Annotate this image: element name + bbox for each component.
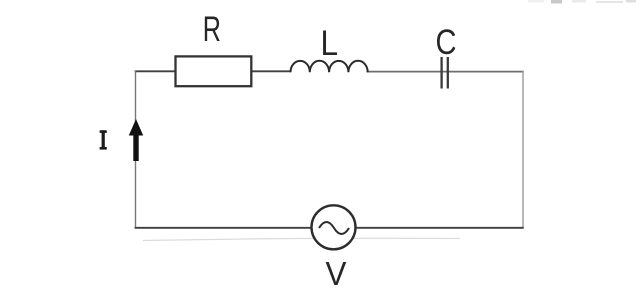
- scan artifact top-right smudges: [528, 0, 636, 4]
- wire resistor to inductor: [251, 70, 291, 72]
- label V: [326, 255, 347, 292]
- wire bottom horizontal: [135, 227, 524, 229]
- label C: [436, 22, 457, 61]
- wire left vertical: [135, 70, 137, 228]
- svg-text:L: L: [321, 25, 339, 64]
- scan artifact faint shadow line below bottom wire: [143, 238, 460, 240]
- current arrow I: [129, 119, 143, 161]
- wire top-left horizontal segment: [135, 70, 176, 72]
- wire inductor to capacitor to top-right corner: [367, 71, 524, 73]
- label R: [203, 10, 221, 49]
- sine wave inside source: [319, 222, 349, 234]
- capacitor C plates: [440, 57, 442, 89]
- svg-text:V: V: [326, 255, 347, 292]
- wire right vertical: [522, 71, 524, 228]
- label I (serif glyph drawn explicitly): [100, 130, 107, 149]
- resistor R: [176, 56, 252, 86]
- label L: [321, 25, 339, 64]
- svg-text:R: R: [203, 10, 221, 49]
- inductor L: [291, 61, 368, 72]
- AC source V: [312, 205, 356, 249]
- svg-text:C: C: [436, 22, 457, 61]
